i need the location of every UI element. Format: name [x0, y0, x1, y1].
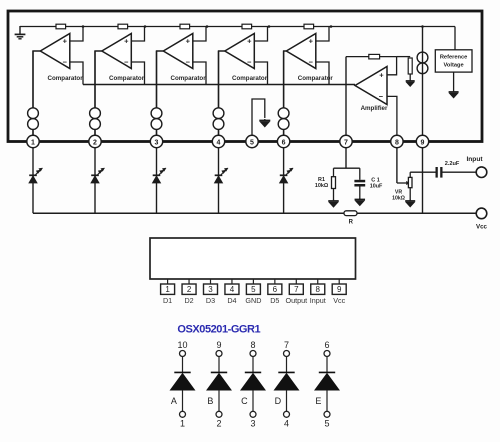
svg-text:4: 4	[217, 139, 221, 146]
svg-text:6: 6	[324, 340, 329, 350]
svg-text:−: −	[186, 58, 191, 67]
svg-text:Vcc: Vcc	[476, 224, 488, 231]
svg-text:9: 9	[421, 139, 425, 146]
svg-text:−: −	[379, 92, 384, 101]
svg-text:Comparator: Comparator	[232, 75, 268, 82]
svg-text:Vcc: Vcc	[333, 296, 345, 305]
svg-text:5: 5	[324, 419, 329, 429]
svg-text:9: 9	[337, 285, 342, 294]
svg-text:1: 1	[165, 285, 170, 294]
svg-text:Comparator: Comparator	[48, 75, 84, 82]
svg-text:R1: R1	[318, 177, 325, 183]
svg-text:8: 8	[316, 285, 321, 294]
svg-text:10kΩ: 10kΩ	[315, 183, 329, 189]
svg-text:4: 4	[230, 285, 235, 294]
svg-text:B: B	[207, 396, 213, 406]
svg-text:D: D	[275, 396, 282, 406]
svg-text:Reference: Reference	[440, 55, 468, 61]
svg-text:Input: Input	[466, 156, 483, 163]
svg-text:D1: D1	[163, 296, 172, 305]
svg-text:2: 2	[93, 139, 97, 146]
svg-text:D3: D3	[206, 296, 215, 305]
svg-text:Input: Input	[310, 296, 326, 305]
svg-text:Comparator: Comparator	[109, 75, 145, 82]
svg-text:+: +	[309, 37, 314, 46]
svg-text:3: 3	[155, 139, 159, 146]
svg-text:+: +	[186, 37, 191, 46]
svg-text:3: 3	[208, 285, 213, 294]
svg-text:7: 7	[344, 139, 348, 146]
svg-text:−: −	[247, 58, 252, 67]
svg-text:C: C	[241, 396, 248, 406]
svg-text:+: +	[247, 37, 252, 46]
svg-text:−: −	[124, 58, 129, 67]
svg-text:10: 10	[177, 340, 187, 350]
svg-text:6: 6	[282, 139, 286, 146]
svg-text:OSX05201-GGR1: OSX05201-GGR1	[177, 324, 260, 336]
svg-text:2: 2	[216, 419, 221, 429]
svg-text:Amplifier: Amplifier	[361, 105, 388, 112]
svg-text:10uF: 10uF	[370, 184, 383, 190]
svg-text:3: 3	[250, 419, 255, 429]
svg-text:R: R	[349, 220, 354, 226]
svg-text:Comparator: Comparator	[171, 75, 207, 82]
svg-text:D5: D5	[270, 296, 279, 305]
svg-text:+: +	[379, 70, 384, 79]
svg-text:−: −	[63, 58, 68, 67]
svg-text:Voltage: Voltage	[444, 63, 464, 69]
svg-text:−: −	[309, 58, 314, 67]
svg-text:GND: GND	[245, 296, 261, 305]
svg-text:A: A	[171, 396, 177, 406]
svg-text:5: 5	[250, 139, 254, 146]
svg-text:7: 7	[294, 285, 299, 294]
svg-text:C 1: C 1	[371, 177, 379, 183]
svg-text:+: +	[124, 37, 129, 46]
svg-text:2: 2	[187, 285, 192, 294]
svg-text:1: 1	[180, 419, 185, 429]
svg-text:5: 5	[251, 285, 256, 294]
svg-text:9: 9	[216, 340, 221, 350]
svg-text:+: +	[63, 37, 68, 46]
svg-text:Output: Output	[286, 296, 308, 305]
svg-text:1: 1	[31, 139, 35, 146]
svg-text:6: 6	[273, 285, 278, 294]
svg-text:D4: D4	[227, 296, 236, 305]
svg-text:8: 8	[395, 139, 399, 146]
svg-text:Comparator: Comparator	[298, 75, 334, 82]
svg-text:E: E	[315, 396, 321, 406]
svg-text:D2: D2	[184, 296, 193, 305]
svg-text:7: 7	[284, 340, 289, 350]
svg-text:8: 8	[250, 340, 255, 350]
svg-text:4: 4	[284, 419, 289, 429]
svg-text:2.2uF: 2.2uF	[445, 161, 460, 167]
svg-text:10kΩ: 10kΩ	[392, 195, 405, 201]
